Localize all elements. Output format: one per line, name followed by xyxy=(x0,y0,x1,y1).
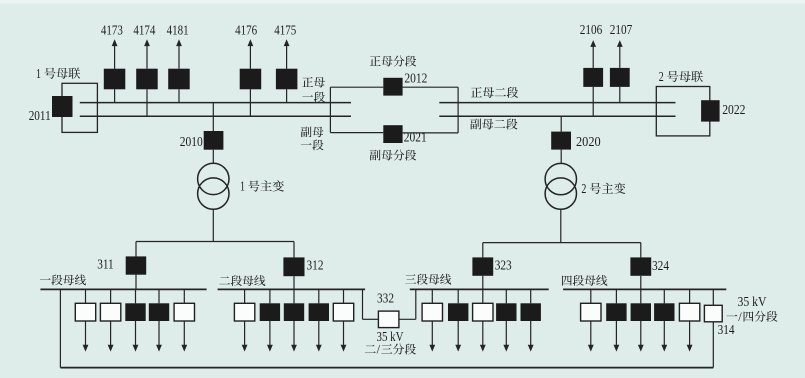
wire lower section link east xyxy=(403,132,459,134)
switch bus2 feeder 3 (closed) xyxy=(284,303,304,321)
bus 一段母线 (35kV section 1) xyxy=(40,288,206,290)
arrowhead bus1 feeder 3 xyxy=(133,345,139,352)
wire bus-tie loop 1 (rectangle) xyxy=(62,83,97,132)
arrowhead feeder 4174 xyxy=(144,39,150,46)
label 四段母线 xyxy=(562,275,607,286)
svg-text:332: 332 xyxy=(377,291,394,306)
label 二段母线 xyxy=(219,275,265,286)
transformer T2 primary winding xyxy=(545,163,576,194)
wire bus2 feeder 3 drop xyxy=(293,289,295,303)
wire bus3 feeder 3 tail xyxy=(482,321,484,345)
wire bus3 feeder 2 drop xyxy=(457,289,459,303)
breaker 4181 xyxy=(168,69,190,90)
arrowhead bus3 feeder 1 xyxy=(429,345,435,352)
bus 副母二段 (east section auxiliary bus) xyxy=(439,115,675,117)
wire bus1 feeder 3 drop xyxy=(135,289,137,303)
arrowhead bus2 feeder 1 xyxy=(242,345,248,352)
label 三段母线 xyxy=(405,274,451,285)
wire T1 LV split xyxy=(136,241,294,243)
svg-text:2106: 2106 xyxy=(580,22,603,37)
switch bus3 feeder 4 (closed) xyxy=(496,303,516,321)
wire feeder 4174 lead xyxy=(146,89,148,116)
label 副母二段 xyxy=(470,118,517,129)
svg-text:/: / xyxy=(738,310,742,324)
wire 2010 to transformer T1 xyxy=(212,150,214,164)
wire 2020 lead xyxy=(560,116,562,131)
wire feeder 4176 arrow shaft xyxy=(249,45,251,68)
switch bus1 feeder 3 (closed) xyxy=(125,303,145,321)
label 一段母线 xyxy=(40,274,86,285)
arrowhead bus3 feeder 2 xyxy=(455,345,461,352)
wire 2010 lead from buses xyxy=(212,103,214,131)
breaker 2106 xyxy=(583,68,603,87)
breaker 314 (35kV 1/4 sectionalizer, open) xyxy=(704,305,722,322)
wire bus4 feeder 5 drop xyxy=(689,289,691,303)
switch bus2 feeder 2 (closed) xyxy=(260,303,280,321)
wire bus4 feeder 3 drop xyxy=(640,289,642,303)
wire to breaker 312 xyxy=(293,242,295,258)
arrowhead feeder 4175 xyxy=(284,39,290,46)
arrowhead bus3 feeder 5 xyxy=(528,345,534,352)
breaker 323 xyxy=(472,257,493,275)
svg-text:311: 311 xyxy=(97,256,114,271)
arrowhead bus3 feeder 3 xyxy=(480,345,486,352)
wire bus1 feeder 4 drop xyxy=(158,289,160,303)
breaker 2011 (No.1 bus-tie breaker) xyxy=(52,96,73,117)
wire to breaker 324 xyxy=(640,243,642,258)
svg-text:4174: 4174 xyxy=(133,22,155,37)
switch bus1 feeder 5 (open) xyxy=(174,303,194,321)
wire 311 to bus1 xyxy=(135,275,137,290)
wire bus3 feeder 5 drop xyxy=(530,289,532,303)
svg-text:4181: 4181 xyxy=(167,22,189,37)
wire bus1 feeder 2 drop xyxy=(110,289,112,303)
wire feeder 2106 arrow shaft xyxy=(592,46,594,68)
wire bus3 feeder 4 tail xyxy=(505,321,507,345)
transformer T1 secondary winding xyxy=(198,178,229,209)
svg-text:2010: 2010 xyxy=(180,134,203,149)
wire 正母一段 riser xyxy=(329,87,331,132)
wire bus1 feeder 1 tail xyxy=(85,321,87,345)
wire feeder 4176 lead xyxy=(249,89,251,116)
wire feeder 4175 arrow shaft xyxy=(286,45,288,68)
label 正母分段 xyxy=(370,56,416,67)
wire feeder 2107 lead xyxy=(619,87,621,103)
transformer T1 primary winding xyxy=(198,163,229,194)
svg-text:324: 324 xyxy=(652,258,669,273)
wire 332 to bus3 xyxy=(399,318,416,320)
wire 323 to bus3 xyxy=(482,276,484,290)
wire bus2 feeder 3 tail xyxy=(293,321,295,345)
switch bus1 feeder 4 (closed) xyxy=(149,303,169,321)
wire bus2 feeder 5 tail xyxy=(343,321,345,345)
svg-text:2107: 2107 xyxy=(610,22,633,37)
switch bus4 feeder 4 (closed) xyxy=(654,303,674,321)
svg-text:2021: 2021 xyxy=(404,130,427,145)
breaker 2107 xyxy=(610,68,630,87)
breaker 332 (35kV 2/3 sectionalizer, open) xyxy=(378,311,399,328)
breaker 2012 (main-bus sectionalizer) xyxy=(383,78,402,96)
switch bus4 feeder 5 (open) xyxy=(679,303,699,321)
switch bus3 feeder 2 (closed) xyxy=(448,303,468,321)
wire bus3 feeder 5 tail xyxy=(530,321,532,345)
wire 312 to bus2 xyxy=(293,276,295,289)
wire T1 secondary lead xyxy=(212,209,214,241)
label 正母(一段) line1 xyxy=(302,77,325,87)
wire bus3 feeder 1 tail xyxy=(431,321,433,345)
wire feeder 4181 lead xyxy=(178,89,180,102)
wire bus4 feeder 4 drop xyxy=(663,289,665,303)
switch bus4 feeder 1 (open) xyxy=(581,303,601,321)
wire bus1 feeder 2 tail xyxy=(110,321,112,345)
wire bus4 feeder 3 tail xyxy=(640,321,642,345)
wire bus3 feeder 4 drop xyxy=(505,289,507,303)
switch bus1 feeder 2 (open) xyxy=(100,303,120,321)
wire feeder 4173 lead xyxy=(114,89,116,102)
wire T2 secondary lead xyxy=(560,209,562,242)
arrowhead bus2 feeder 5 xyxy=(341,345,347,352)
wire lower section link west xyxy=(330,132,383,134)
arrowhead feeder 2107 xyxy=(617,40,623,47)
wire bus2 feeder 2 drop xyxy=(269,289,271,303)
svg-text:2022: 2022 xyxy=(722,102,745,117)
bus 二段母线 (35kV section 2) xyxy=(218,288,366,290)
wire 314 to bottom tie xyxy=(712,322,714,368)
breaker 4176 xyxy=(240,69,262,90)
arrowhead feeder 4181 xyxy=(176,39,182,46)
wire 324 to bus4 xyxy=(640,276,642,290)
breaker 2022 (No.2 bus-tie breaker) xyxy=(701,100,720,121)
switch bus1 feeder 1 (open) xyxy=(75,303,95,321)
wire bus4 drop to 314 xyxy=(712,289,714,305)
bus 三段母线 (35kV section 3) xyxy=(410,288,549,290)
svg-text:314: 314 xyxy=(718,322,735,337)
wire bus1 feeder 5 tail xyxy=(183,321,185,345)
arrowhead bus1 feeder 2 xyxy=(108,345,114,352)
bus 副母一段 (west section auxiliary bus) xyxy=(80,115,351,117)
top edge light strip xyxy=(0,0,805,4)
wire bus2 feeder 5 drop xyxy=(343,289,345,303)
breaker 324 xyxy=(630,257,651,275)
wire bus2 feeder 1 drop xyxy=(244,289,246,303)
wire bus1 feeder 4 tail xyxy=(158,321,160,345)
wire bus2 feeder 4 drop xyxy=(318,289,320,303)
wire bus2 feeder 4 tail xyxy=(318,321,320,345)
svg-text:2: 2 xyxy=(659,69,664,84)
switch bus4 feeder 2 (closed) xyxy=(606,303,626,321)
bus 正母二段 (east section main bus) xyxy=(439,102,675,104)
arrowhead bus1 feeder 5 xyxy=(181,345,187,352)
switch bus2 feeder 4 (closed) xyxy=(309,303,329,321)
wire to breaker 311 xyxy=(135,242,137,257)
breaker 312 xyxy=(283,257,304,276)
arrowhead bus2 feeder 3 xyxy=(291,345,297,352)
breaker 4174 xyxy=(136,69,158,90)
arrowhead bus4 feeder 2 xyxy=(614,345,620,352)
wire bus1 feeder 1 drop xyxy=(85,289,87,303)
wire bottom tie bus xyxy=(60,367,713,369)
svg-text:/: / xyxy=(377,343,381,357)
switch bus3 feeder 3 (open) xyxy=(473,303,493,321)
label 二/三分段 xyxy=(365,345,376,353)
svg-text:2: 2 xyxy=(581,181,586,196)
svg-text:323: 323 xyxy=(495,258,512,273)
arrowhead feeder 4173 xyxy=(112,39,118,46)
arrowhead bus2 feeder 2 xyxy=(267,345,273,352)
wire bus3 feeder 1 drop xyxy=(431,289,433,303)
svg-text:4175: 4175 xyxy=(274,22,296,37)
transformer T2 secondary winding xyxy=(545,178,576,209)
switch bus4 feeder 3 (closed) xyxy=(631,303,651,321)
wire 2020 to transformer T2 xyxy=(560,150,562,164)
wire 正母二段 riser xyxy=(457,87,459,133)
svg-text:2011: 2011 xyxy=(29,108,51,123)
svg-text:312: 312 xyxy=(307,258,324,273)
svg-text:2020: 2020 xyxy=(576,134,601,149)
svg-text:35 kV: 35 kV xyxy=(377,329,404,344)
switch bus2 feeder 1 (open) xyxy=(234,303,254,321)
label 一段 line2b xyxy=(301,140,324,151)
arrowhead bus2 feeder 4 xyxy=(316,345,322,352)
arrowhead bus4 feeder 1 xyxy=(588,345,594,352)
arrowhead bus4 feeder 4 xyxy=(661,345,667,352)
arrowhead bus1 feeder 1 xyxy=(83,345,89,352)
wire upper section link east xyxy=(403,86,459,88)
bus 正母一段 (west section main bus) xyxy=(80,102,351,104)
breaker 2010 (No.1 transformer 110kV breaker) xyxy=(204,131,224,150)
svg-text:4176: 4176 xyxy=(235,22,257,37)
breaker 311 xyxy=(126,256,147,274)
breaker 4173 xyxy=(104,69,126,90)
arrowhead bus4 feeder 3 xyxy=(638,345,644,352)
wire feeder 4181 arrow shaft xyxy=(178,45,180,68)
breaker 2021 (aux-bus sectionalizer) xyxy=(383,125,402,143)
label 正母二段 xyxy=(471,87,518,98)
arrowhead bus4 feeder 5 xyxy=(687,345,693,352)
wire bus-tie loop 2 (rectangle) xyxy=(656,87,710,136)
arrowhead feeder 4176 xyxy=(248,39,254,46)
switch bus2 feeder 5 (open) xyxy=(333,303,353,321)
wire bus4 feeder 1 drop xyxy=(590,289,592,303)
wire bus4 feeder 1 tail xyxy=(590,321,592,345)
svg-text:1: 1 xyxy=(240,179,245,194)
wire bus1 feeder 5 drop xyxy=(183,289,185,303)
wire bus2 feeder 2 tail xyxy=(269,321,271,345)
label 副母(一段) line1 xyxy=(301,127,324,138)
label 一/四分段 xyxy=(727,315,738,316)
arrowhead bus3 feeder 4 xyxy=(503,345,509,352)
wire feeder 4174 arrow shaft xyxy=(146,45,148,68)
arrowhead feeder 2106 xyxy=(590,40,596,47)
wire bus1 left riser xyxy=(59,289,61,367)
wire bus4 feeder 4 tail xyxy=(663,321,665,345)
wire T2 LV split xyxy=(483,242,641,244)
wire bus2 feeder 1 tail xyxy=(244,321,246,345)
wire to breaker 323 xyxy=(482,243,484,258)
arrowhead bus1 feeder 4 xyxy=(156,345,162,352)
bus 四段母线 (35kV section 4) xyxy=(563,288,726,290)
wire feeder 2107 arrow shaft xyxy=(619,46,621,68)
wire feeder 4173 arrow shaft xyxy=(114,45,116,68)
breaker 2020 (No.2 transformer 110kV breaker) xyxy=(551,132,571,150)
wire feeder 2106 lead xyxy=(592,87,594,116)
wire bus2 drop to 332 xyxy=(362,289,364,319)
switch bus3 feeder 5 (closed) xyxy=(521,303,541,321)
label 副母分段 xyxy=(370,150,416,161)
wire bus3 feeder 3 drop xyxy=(482,289,484,303)
svg-text:1: 1 xyxy=(36,66,41,81)
svg-text:35 kV: 35 kV xyxy=(738,294,767,309)
wire bus4 feeder 5 tail xyxy=(689,321,691,345)
label 一段 line2 xyxy=(302,92,325,103)
wire bus4 feeder 2 tail xyxy=(615,321,617,345)
switch bus3 feeder 1 (open) xyxy=(422,303,442,321)
breaker 4175 xyxy=(276,69,298,90)
wire upper section link west xyxy=(330,86,383,88)
wire bus4 feeder 2 drop xyxy=(615,289,617,303)
svg-text:2012: 2012 xyxy=(404,70,427,85)
wire feeder 4175 lead xyxy=(286,89,288,102)
svg-text:4173: 4173 xyxy=(101,22,123,37)
wire bus1 feeder 3 tail xyxy=(135,321,137,345)
wire bus3 feeder 2 tail xyxy=(457,321,459,345)
